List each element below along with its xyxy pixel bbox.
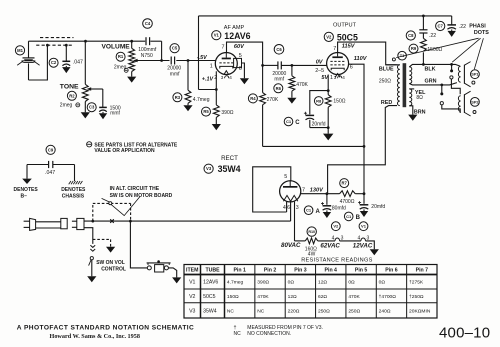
svg-text:NC: NC xyxy=(257,308,265,314)
svg-text:7: 7 xyxy=(333,46,336,52)
svg-text:62Ω: 62Ω xyxy=(318,294,327,300)
svg-text:7: 7 xyxy=(222,44,225,50)
svg-text:2meg: 2meg xyxy=(60,103,73,109)
svg-text:4: 4 xyxy=(358,235,361,241)
svg-text:C3: C3 xyxy=(89,105,95,110)
svg-text:470K: 470K xyxy=(257,294,269,300)
svg-text:0Ω: 0Ω xyxy=(288,280,295,286)
svg-text:220Ω: 220Ω xyxy=(288,308,300,314)
svg-text:250Ω: 250Ω xyxy=(348,308,360,314)
svg-text:4.7meg: 4.7meg xyxy=(227,280,244,286)
svg-text:B–: B– xyxy=(21,193,28,199)
svg-text:115V: 115V xyxy=(342,44,356,50)
svg-text:R4: R4 xyxy=(250,96,256,101)
svg-text:20mfd: 20mfd xyxy=(371,204,385,210)
svg-text:R1: R1 xyxy=(118,54,124,59)
svg-text:35W4: 35W4 xyxy=(218,164,241,174)
svg-text:N750: N750 xyxy=(141,53,153,59)
svg-text:4.7meg: 4.7meg xyxy=(193,97,210,103)
svg-text:C5: C5 xyxy=(172,46,178,51)
svg-text:RECT: RECT xyxy=(221,155,238,162)
svg-text:4: 4 xyxy=(342,75,345,80)
svg-text:150Ω: 150Ω xyxy=(227,294,239,300)
svg-text:Pin 5: Pin 5 xyxy=(355,268,368,274)
svg-text:C: C xyxy=(295,120,300,126)
svg-text:NC: NC xyxy=(227,308,235,314)
svg-text:0Ω: 0Ω xyxy=(379,280,386,286)
svg-text:IN ALT. CIRCUIT THE: IN ALT. CIRCUIT THE xyxy=(110,186,160,192)
svg-text:150Ω: 150Ω xyxy=(333,99,345,105)
svg-text:Pin 1: Pin 1 xyxy=(233,268,246,274)
svg-text:.22: .22 xyxy=(459,24,466,30)
svg-text:240Ω: 240Ω xyxy=(379,308,391,314)
svg-text:250Ω: 250Ω xyxy=(379,78,391,84)
svg-text:Pin 4: Pin 4 xyxy=(325,268,338,274)
svg-text:OUTPUT: OUTPUT xyxy=(333,23,357,29)
svg-text:ITEM: ITEM xyxy=(186,268,198,274)
svg-text:SP1: SP1 xyxy=(471,72,479,77)
svg-text:GRN: GRN xyxy=(425,79,437,85)
svg-text:3: 3 xyxy=(221,75,224,80)
svg-text:MEASURED FROM PIN 7 OF V3.: MEASURED FROM PIN 7 OF V3. xyxy=(247,325,323,331)
svg-text:†275K: †275K xyxy=(409,280,424,286)
svg-text:R2: R2 xyxy=(69,93,75,98)
svg-text:DENOTES: DENOTES xyxy=(61,187,86,193)
svg-text:5: 5 xyxy=(284,174,287,180)
svg-text:3: 3 xyxy=(341,235,344,241)
svg-text:12Ω: 12Ω xyxy=(288,294,297,300)
svg-text:50C5: 50C5 xyxy=(203,294,216,300)
svg-text:R7: R7 xyxy=(342,181,348,186)
svg-text:50C5: 50C5 xyxy=(337,32,358,42)
svg-text:C1: C1 xyxy=(286,119,292,124)
svg-text:8Ω: 8Ω xyxy=(416,95,423,101)
svg-text:VOLUME: VOLUME xyxy=(102,44,131,51)
svg-text:R3: R3 xyxy=(175,95,181,100)
svg-text:mmf: mmf xyxy=(170,71,180,77)
svg-text:†4700Ω: †4700Ω xyxy=(379,294,397,300)
svg-text:60V: 60V xyxy=(234,44,245,50)
svg-text:7: 7 xyxy=(302,188,305,194)
svg-text:1: 1 xyxy=(210,64,213,70)
svg-text:35W4: 35W4 xyxy=(203,308,217,314)
svg-text:390Ω: 390Ω xyxy=(257,280,269,286)
svg-text:110V: 110V xyxy=(354,56,368,62)
svg-text:V2: V2 xyxy=(189,294,195,300)
svg-text:6: 6 xyxy=(287,205,290,211)
svg-text:DENOTES: DENOTES xyxy=(14,187,39,193)
svg-text:V3: V3 xyxy=(206,166,212,171)
svg-text:SP2: SP2 xyxy=(471,99,479,104)
svg-text:BLK: BLK xyxy=(425,67,436,73)
svg-text:R10: R10 xyxy=(308,230,315,234)
svg-text:TUBE: TUBE xyxy=(205,268,220,274)
svg-text:130V: 130V xyxy=(310,188,324,194)
svg-text:12AV6: 12AV6 xyxy=(224,31,250,41)
svg-text:B: B xyxy=(356,215,361,221)
svg-text:0Ω: 0Ω xyxy=(348,280,355,286)
svg-text:4W: 4W xyxy=(308,252,316,258)
svg-text:C7: C7 xyxy=(438,24,444,29)
svg-text:470K: 470K xyxy=(348,294,360,300)
svg-text:6: 6 xyxy=(239,66,242,72)
svg-text:SW ON VOL: SW ON VOL xyxy=(96,260,125,266)
svg-text:.047: .047 xyxy=(73,60,83,66)
svg-text:250Ω: 250Ω xyxy=(318,308,330,314)
svg-text:RESISTANCE READINGS: RESISTANCE READINGS xyxy=(301,258,372,264)
svg-text:R9: R9 xyxy=(411,46,417,51)
svg-text:Pin 6: Pin 6 xyxy=(385,268,398,274)
svg-text:+.1V: +.1V xyxy=(202,77,214,83)
svg-text:M1: M1 xyxy=(17,48,23,53)
svg-text:20KΩMIN: 20KΩMIN xyxy=(409,308,431,314)
svg-text:†250Ω: †250Ω xyxy=(409,294,424,300)
svg-text:3: 3 xyxy=(296,205,299,211)
svg-text:V2: V2 xyxy=(326,34,332,39)
svg-text:C1: C1 xyxy=(306,208,312,213)
svg-text:5: 5 xyxy=(239,53,242,59)
svg-text:CHASSIS: CHASSIS xyxy=(62,193,85,199)
svg-text:TONE: TONE xyxy=(60,83,79,90)
svg-text:12VAC: 12VAC xyxy=(353,242,373,249)
svg-text:6: 6 xyxy=(350,65,353,71)
svg-text:3: 3 xyxy=(334,75,337,80)
svg-text:270K: 270K xyxy=(267,97,279,103)
svg-text:2–5: 2–5 xyxy=(315,68,324,74)
svg-text:62VAC: 62VAC xyxy=(320,242,340,249)
svg-text:A: A xyxy=(316,209,321,215)
svg-text:BRN: BRN xyxy=(414,109,426,115)
svg-text:3: 3 xyxy=(367,235,370,241)
svg-text:R5: R5 xyxy=(203,109,209,114)
svg-text:400–10: 400–10 xyxy=(439,325,490,342)
svg-text:V3: V3 xyxy=(189,308,195,314)
svg-text:20mfd: 20mfd xyxy=(312,122,326,128)
svg-text:V1: V1 xyxy=(361,224,367,229)
svg-text:Howard W. Sams & Co., Inc. 195: Howard W. Sams & Co., Inc. 1958 xyxy=(50,333,140,340)
svg-text:NC: NC xyxy=(234,331,242,337)
svg-text:-.5V: -.5V xyxy=(197,55,207,61)
svg-text:C9: C9 xyxy=(48,147,54,152)
svg-text:SW IS ON MOTOR BOARD: SW IS ON MOTOR BOARD xyxy=(110,193,173,199)
svg-text:C6: C6 xyxy=(276,47,282,52)
svg-text:VALUE OR APPLICATION: VALUE OR APPLICATION xyxy=(94,148,155,154)
svg-text:R8: R8 xyxy=(316,98,322,103)
svg-text:.047: .047 xyxy=(45,170,55,176)
svg-text:Pin 2: Pin 2 xyxy=(264,268,277,274)
svg-text:mmf: mmf xyxy=(110,110,120,116)
svg-text:4700Ω: 4700Ω xyxy=(340,199,355,205)
svg-text:Pin 7: Pin 7 xyxy=(416,268,429,274)
svg-text:12Ω: 12Ω xyxy=(318,280,327,286)
svg-text:12AV6: 12AV6 xyxy=(203,280,218,286)
svg-text:RED: RED xyxy=(381,100,392,106)
svg-text:BLUE: BLUE xyxy=(379,67,394,73)
svg-text:Pin 3: Pin 3 xyxy=(294,268,307,274)
svg-text:†: † xyxy=(234,325,237,331)
svg-text:V1: V1 xyxy=(214,33,220,38)
svg-text:NO CONNECTION.: NO CONNECTION. xyxy=(247,331,291,337)
svg-text:A PHOTOFACT STANDARD NOTATION: A PHOTOFACT STANDARD NOTATION SCHEMATIC xyxy=(17,325,194,332)
svg-text:C4: C4 xyxy=(145,21,151,26)
svg-text:CONTROL: CONTROL xyxy=(101,267,126,273)
svg-text:C1: C1 xyxy=(346,214,352,219)
svg-text:PHASI: PHASI xyxy=(469,24,486,30)
svg-text:V2: V2 xyxy=(333,224,339,229)
svg-text:1: 1 xyxy=(330,75,333,81)
svg-text:R6: R6 xyxy=(276,86,282,91)
svg-text:80mfd: 80mfd xyxy=(332,205,346,211)
svg-text:C2: C2 xyxy=(51,60,57,65)
svg-text:DOTS: DOTS xyxy=(474,30,489,36)
svg-text:V1: V1 xyxy=(189,280,195,286)
svg-text:mmf: mmf xyxy=(274,77,284,83)
svg-text:.22: .22 xyxy=(429,33,436,39)
svg-text:390Ω: 390Ω xyxy=(221,110,233,116)
svg-text:4: 4 xyxy=(283,205,286,211)
svg-text:4: 4 xyxy=(332,235,335,241)
svg-text:80VAC: 80VAC xyxy=(281,242,301,249)
svg-text:4: 4 xyxy=(229,75,232,80)
svg-text:C8: C8 xyxy=(408,33,414,38)
svg-text:470K: 470K xyxy=(296,82,308,88)
